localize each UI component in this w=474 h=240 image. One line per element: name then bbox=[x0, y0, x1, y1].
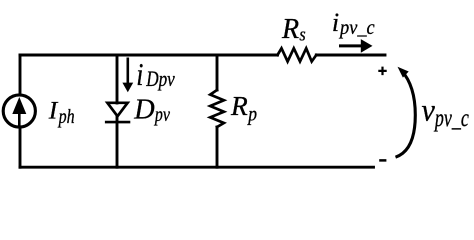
svg-text:p: p bbox=[246, 104, 257, 126]
svg-text:pv: pv bbox=[153, 103, 171, 125]
svg-text:R: R bbox=[281, 14, 299, 45]
svg-text:Dpv: Dpv bbox=[145, 67, 175, 92]
svg-text:i: i bbox=[332, 8, 339, 37]
svg-text:s: s bbox=[299, 23, 305, 45]
svg-text:pv_c: pv_c bbox=[433, 104, 469, 132]
svg-text:I: I bbox=[48, 96, 59, 125]
svg-text:v: v bbox=[422, 92, 436, 128]
svg-text:pv_c: pv_c bbox=[338, 17, 375, 39]
svg-text:i: i bbox=[136, 57, 143, 92]
svg-text:R: R bbox=[230, 91, 248, 121]
svg-text:D: D bbox=[133, 94, 154, 125]
svg-text:ph: ph bbox=[57, 105, 75, 127]
